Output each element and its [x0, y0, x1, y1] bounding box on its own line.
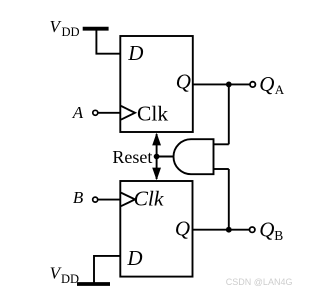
svg-text:B: B [274, 228, 283, 243]
reset wire vertical with arrows [156, 134, 158, 179]
svg-text:B: B [73, 188, 84, 207]
svg-text:Reset: Reset [112, 147, 152, 167]
wire B to Clk U2 [98, 199, 120, 201]
D flip-flop U2 (bottom) [120, 181, 192, 277]
output terminal QB (open circle) [250, 227, 255, 232]
wire Q of U2 to QB [192, 229, 249, 231]
svg-text:Clk: Clk [137, 101, 168, 125]
junction node Reset [154, 154, 160, 160]
AND gate G1 (output facing left) [174, 139, 214, 174]
label VDD (bottom) [50, 263, 79, 286]
clock edge triangle U2 [121, 193, 135, 207]
D flip-flop U1 (top) [120, 36, 193, 132]
svg-text:Clk: Clk [134, 187, 164, 211]
wire AND top input stub [214, 143, 229, 145]
junction node QA [226, 82, 232, 88]
output terminal QA (open circle) [250, 82, 255, 87]
input terminal B (open circle) [93, 197, 98, 202]
arrowhead down into U2 [152, 168, 161, 181]
wire QA junction down to AND input [228, 84, 230, 144]
svg-text:DD: DD [62, 25, 80, 39]
svg-text:A: A [72, 103, 84, 122]
wire AND bottom input down to QB junction [228, 169, 230, 230]
power bar VDD bottom [77, 282, 110, 286]
clock edge triangle U1 [121, 106, 135, 120]
label QA [259, 72, 285, 97]
svg-text:Q: Q [259, 72, 274, 96]
power bar VDD top [83, 27, 109, 31]
wire A to Clk U1 [98, 112, 120, 114]
input terminal A (open circle) [93, 110, 98, 115]
svg-text:D: D [126, 246, 142, 270]
arrowhead up into U1 [152, 133, 161, 146]
wire VDD top to D input [96, 30, 119, 54]
svg-text:Q: Q [176, 70, 191, 94]
svg-text:Q: Q [259, 218, 274, 242]
wire Reset junction to AND output [157, 156, 175, 158]
svg-text:CSDN @LAN4G: CSDN @LAN4G [226, 277, 293, 287]
wire VDD bottom to D input U2 [94, 256, 120, 283]
wire AND bottom input stub [214, 168, 229, 170]
svg-text:A: A [275, 82, 285, 97]
label VDD (top) [50, 17, 80, 39]
junction node QB [226, 227, 232, 233]
wire Q of U1 to QA [193, 83, 251, 85]
svg-text:Q: Q [175, 217, 190, 241]
svg-text:D: D [127, 41, 143, 65]
svg-text:DD: DD [61, 272, 79, 286]
label QB [259, 218, 283, 243]
